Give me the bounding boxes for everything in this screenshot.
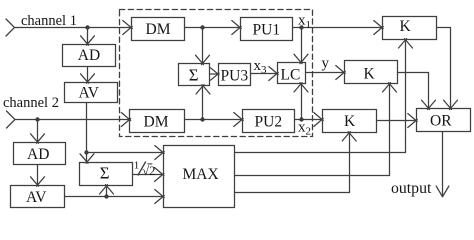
wire node down to sigma1 top [196, 28, 210, 65]
wire channel 1 to DM1 [15, 21, 133, 35]
block AV channel 2 [11, 186, 65, 208]
overbar of sqrt two [148, 163, 153, 165]
svg-text:x1: x1 [298, 13, 311, 31]
block AV channel 1 [65, 83, 118, 103]
wire tap down to AD2 [31, 120, 45, 144]
svg-text:AD: AD [27, 146, 49, 163]
wire x1 down to LC top [294, 28, 308, 64]
block K2 [345, 61, 398, 84]
node x1 [299, 25, 303, 29]
block K3 [323, 110, 377, 133]
wire AD2 to AV2 [31, 165, 45, 187]
svg-text:1: 1 [134, 160, 140, 172]
svg-text:x2: x2 [298, 120, 311, 138]
svg-text:LC: LC [281, 67, 301, 84]
svg-text:output: output [391, 180, 432, 197]
svg-text:DM: DM [144, 113, 169, 130]
wire MAX output 1 to K1 bottom [235, 39, 413, 153]
svg-text:OR: OR [430, 113, 452, 130]
node x2 [299, 117, 303, 121]
svg-text:AV: AV [26, 189, 47, 206]
svg-text:K: K [364, 66, 376, 83]
svg-text:DM: DM [146, 21, 171, 38]
node AV2 line split [104, 194, 108, 198]
block PU2 [243, 110, 295, 133]
node after DM2 [200, 117, 204, 121]
svg-text:AV: AV [79, 85, 100, 102]
block PU3 [219, 64, 251, 86]
svg-text:Σ: Σ [100, 163, 110, 182]
block AD channel 2 [14, 143, 66, 165]
wire split right to MAX input 1 [87, 146, 165, 160]
wire split up to sigma2 bottom [100, 185, 114, 197]
svg-text:PU2: PU2 [255, 113, 283, 130]
wire OR output with arrow [436, 132, 449, 197]
block PU1 [241, 18, 293, 41]
wire MAX output 2 to K2 bottom [235, 83, 397, 176]
svg-text:√2: √2 [142, 164, 155, 178]
label slash of one over sqrt two [138, 162, 146, 176]
wire K1 output to OR top [437, 28, 458, 110]
block sigma2 [80, 163, 133, 186]
channel 2 input chevron [7, 111, 16, 128]
block MAX [164, 146, 235, 208]
wire DM2 to PU2 [185, 113, 244, 127]
svg-text:MAX: MAX [183, 166, 219, 183]
wire AV down [86, 103, 88, 153]
svg-text:Σ: Σ [189, 66, 199, 85]
wire AV2 to MAX input 3 [65, 190, 165, 204]
svg-text:channel 1: channel 1 [21, 13, 77, 29]
block DM2 [130, 110, 185, 133]
svg-text:channel 2: channel 2 [3, 95, 59, 111]
svg-text:y: y [322, 56, 330, 72]
node channel 1 tap [85, 25, 89, 29]
svg-text:PU3: PU3 [221, 68, 249, 85]
wire split down to sigma2 top [80, 153, 94, 164]
wire K3 output to OR left [377, 114, 418, 128]
wire PU2 to K3 x2 [295, 113, 324, 127]
svg-text:K: K [344, 113, 356, 130]
wire tap down to AD [81, 28, 95, 46]
wire sigma1 to PU3 [210, 68, 220, 80]
block K1 [383, 17, 437, 40]
node AV line split [84, 150, 88, 154]
wire MAX output 3 to K3 bottom [235, 132, 357, 193]
wire DM1 to PU1 [185, 21, 242, 35]
svg-text:K: K [400, 18, 412, 35]
wire x2 up to LC bottom [294, 83, 308, 120]
wire node up to sigma1 bottom [196, 85, 210, 120]
block DM1 [132, 18, 185, 41]
dashed selection box [120, 10, 313, 137]
svg-text:PU1: PU1 [253, 22, 281, 39]
channel 1 input chevron [6, 19, 15, 36]
block LC [278, 63, 306, 84]
node channel 2 tap [35, 117, 39, 121]
wire K2 output to OR top [398, 73, 436, 110]
wire channel 2 to DM2 [15, 113, 131, 127]
block AD channel 1 [63, 45, 116, 67]
wire LC to K2 y [306, 66, 346, 80]
svg-text:AD: AD [78, 47, 100, 64]
node after DM1 [200, 25, 204, 29]
block OR [417, 109, 471, 132]
block sigma1 [179, 64, 210, 86]
svg-text:x3: x3 [254, 58, 268, 76]
wire AD to AV [81, 67, 95, 84]
wire PU1 to K1 x1 [293, 21, 384, 35]
wire PU3 to LC x3 [251, 67, 279, 81]
wire sigma2 to MAX input 2 [133, 168, 164, 182]
